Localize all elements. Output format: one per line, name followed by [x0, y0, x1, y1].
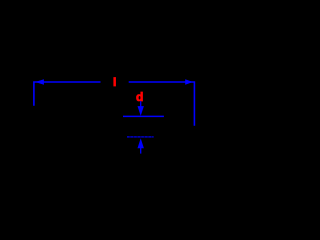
dimension arrow down: [140, 101, 142, 107]
svg-text:d: d: [136, 90, 143, 104]
arrowhead right (current direction): [185, 79, 193, 85]
lower dashed line: [127, 136, 154, 138]
upper short line: [123, 115, 164, 117]
wire right segment: [129, 82, 195, 126]
dimension arrow up: [138, 138, 144, 148]
arrowhead left (current direction): [35, 79, 44, 85]
svg-text:I: I: [113, 75, 116, 89]
wire left vertical segment: [34, 82, 101, 106]
